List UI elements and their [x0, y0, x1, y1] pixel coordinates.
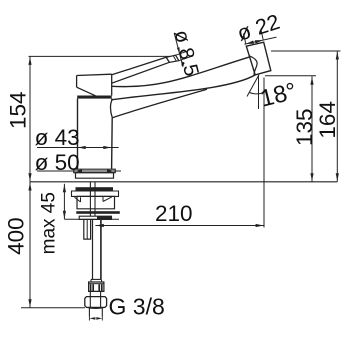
- svg-text:164: 164: [315, 101, 340, 139]
- svg-text:ø 43: ø 43: [35, 125, 80, 150]
- base plate body: [76, 173, 114, 179]
- outlet end piece: [246, 42, 270, 75]
- dim dia43: [35, 125, 119, 150]
- svg-text:G 3/8: G 3/8: [109, 293, 165, 319]
- spout cone root line: [112, 89, 207, 118]
- dim 164: [271, 51, 341, 182]
- spout root notch: [110, 100, 112, 118]
- dim dia8.5: [170, 28, 204, 79]
- svg-text:ø 50: ø 50: [35, 150, 80, 175]
- dim dia22: [234, 10, 282, 46]
- dim 210: [95, 78, 264, 228]
- dim max 45: [38, 184, 119, 255]
- fitting neck: [90, 291, 100, 296]
- clamp plate: [79, 216, 111, 219]
- lever handle: [112, 57, 170, 83]
- nut G3/8: [85, 297, 107, 309]
- outlet cheek curve: [249, 56, 257, 75]
- spout lower line: [112, 75, 255, 100]
- mounting stud: [84, 219, 91, 239]
- svg-text:210: 210: [155, 201, 193, 226]
- pipe flare: [91, 279, 102, 282]
- washer under deck: [76, 187, 114, 190]
- lever tip cap: [166, 55, 179, 62]
- faucet cap: [77, 74, 112, 96]
- spout upper line: [112, 57, 250, 87]
- label G3/8: [89, 293, 164, 320]
- svg-text:max 45: max 45: [38, 192, 59, 254]
- svg-text:154: 154: [5, 91, 30, 129]
- pipe stub: [89, 308, 102, 317]
- cap joint band: [77, 96, 112, 99]
- horseshoe washer: [76, 211, 120, 214]
- dim dia50: [35, 150, 121, 175]
- svg-text:400: 400: [4, 217, 29, 255]
- base plate flange: [74, 169, 115, 173]
- dim 135: [265, 76, 317, 182]
- washer plate: [72, 191, 119, 196]
- faucet body: [78, 99, 113, 170]
- clamp body: [75, 196, 115, 208]
- serrated fitting: [89, 282, 104, 291]
- tie rod through deck: [90, 182, 95, 216]
- dim 154: [5, 56, 171, 181]
- svg-text:135: 135: [292, 108, 317, 146]
- dim 18deg: [247, 75, 299, 113]
- deck line: [30, 181, 337, 183]
- supply pipe: [93, 219, 101, 279]
- dim 400: [4, 182, 85, 308]
